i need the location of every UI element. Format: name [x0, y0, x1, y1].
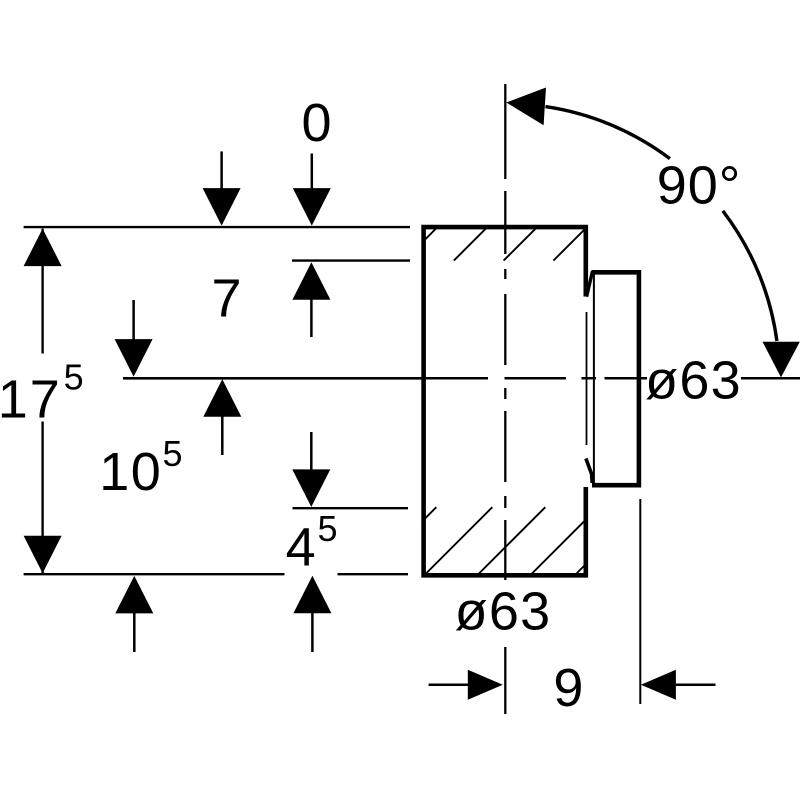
90 degree arc segment lower [723, 211, 777, 341]
reference line 7 [292, 259, 410, 261]
vertical centerline dash-dot [504, 84, 506, 714]
arrow up at line 0 (17.5 dim top) [24, 229, 62, 267]
bottom notch diagonal [586, 459, 592, 484]
svg-text:0: 0 [301, 93, 331, 153]
svg-text:9: 9 [553, 658, 583, 718]
arc arrowhead top [506, 88, 546, 126]
9-dim arrow right-pointing [429, 670, 503, 700]
horizontal centerline solid left part [123, 377, 422, 380]
arrow down at line 17.5 (17.5 dim bottom) [24, 536, 62, 574]
svg-text:7: 7 [211, 268, 241, 328]
dimension line 17.5 vertical (gap at label) [41, 229, 43, 573]
svg-text:90°: 90° [657, 156, 742, 216]
arrow up at line 17.5 left [115, 576, 153, 652]
arrow down at line 0 left [203, 151, 241, 225]
bottom hatch lines [422, 507, 586, 574]
top notch diagonal [587, 271, 593, 297]
body right edge thin segments behind socket [586, 312, 588, 445]
arrow up at line 7 [292, 262, 330, 337]
socket left thin edge [593, 274, 595, 483]
svg-text:17: 17 [0, 370, 62, 430]
arrow up at centerline (10.5 dim) [203, 379, 241, 455]
arc arrowhead bottom [763, 342, 800, 378]
arrow down at centerline (10.5 dim) [115, 300, 153, 377]
svg-text:4: 4 [286, 518, 316, 578]
90 degree arc segment upper [545, 107, 670, 159]
arrow down at line 0 right [293, 154, 331, 226]
svg-text:10: 10 [99, 442, 162, 502]
reference line 0 (top datum) [24, 226, 410, 228]
socket outline [592, 272, 639, 485]
svg-text:5: 5 [163, 433, 183, 474]
fitting body outline [424, 227, 586, 575]
reference line 17.5 (bottom datum, gap at label 4.5) [24, 573, 408, 575]
svg-text:ø63: ø63 [455, 582, 552, 642]
svg-text:5: 5 [318, 508, 338, 549]
svg-text:5: 5 [64, 357, 84, 398]
arrow down at line 4.5 [292, 432, 330, 507]
horizontal centerline dash-dot right part [425, 377, 800, 380]
reference line 4.5 [293, 507, 409, 509]
svg-text:ø63: ø63 [645, 350, 742, 410]
top hatch lines [423, 227, 586, 261]
arrow up at line 17.5 right [293, 576, 331, 652]
9-dim arrow left-pointing [641, 670, 716, 700]
socket extension line [639, 499, 641, 704]
